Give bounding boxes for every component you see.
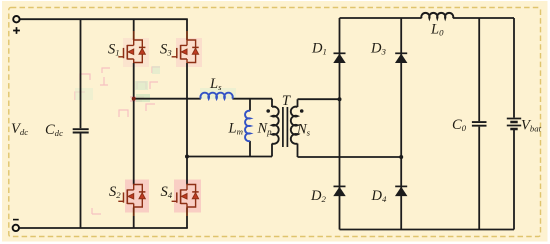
transistor S3 — [172, 39, 199, 63]
transformer core — [283, 107, 288, 147]
wire: top output rail right of L0 — [453, 17, 514, 19]
inductor Lm (blue) — [245, 111, 250, 141]
node: secondary top at D1 leg — [338, 97, 342, 101]
wire: Cdc branch — [80, 19, 82, 228]
plus sign — [13, 27, 20, 34]
diode D1 — [334, 53, 346, 62]
terminal + (positive input) — [13, 16, 19, 22]
battery Vbat plates — [507, 119, 521, 126]
transformer dot primary — [266, 109, 270, 113]
terminal - (negative input) — [13, 225, 19, 231]
transistor S2 — [118, 184, 145, 208]
transistor S1 — [118, 39, 145, 63]
inductor L0 — [421, 13, 453, 18]
wire: primary winding stubs — [271, 99, 273, 157]
wire: Ls to transformer top — [232, 98, 272, 100]
wire: D1/D2 leg — [339, 18, 341, 230]
pink highlight behind S3 — [176, 38, 202, 67]
wire: bottom left rail — [19, 227, 188, 229]
wire: battery branch — [513, 18, 515, 230]
pink highlight behind S1 — [123, 38, 149, 67]
node: bridge mid junction — [132, 97, 136, 101]
wire: S1/S2 leg — [133, 19, 135, 228]
pink highlight behind S2 — [125, 180, 149, 213]
wire: secondary bottom to D4 leg — [298, 156, 402, 158]
wire: S3/S4 leg — [186, 19, 188, 228]
wire: primary bottom — [187, 156, 272, 158]
jpeg artifact marks (faint) — [75, 67, 160, 214]
node: S3/S4 mid junction — [185, 155, 189, 159]
minus sign — [13, 219, 19, 221]
inductor Ls (blue) — [200, 93, 232, 99]
wire: secondary top to D1 leg — [298, 98, 340, 100]
diode D2 — [334, 186, 346, 195]
wire: Lm branch stubs — [249, 99, 251, 157]
diode D4 — [395, 186, 407, 195]
jpeg artifact green patches (faint) — [75, 66, 236, 102]
transformer secondary winding Ns — [291, 107, 298, 144]
wire: top output rail left of L0 — [340, 17, 422, 19]
wire: top left rail — [20, 18, 188, 20]
transformer primary winding Np — [272, 107, 279, 144]
wire: bridge mid to Ls — [134, 98, 201, 100]
node: secondary bottom at D4 leg — [399, 155, 403, 159]
transistor S4 — [172, 184, 199, 208]
svg-text:T: T — [282, 93, 291, 109]
pink highlight behind S4 — [174, 180, 201, 213]
capacitor Cdc — [73, 129, 89, 132]
wire: C0 branch — [478, 18, 480, 230]
wire: secondary winding stubs — [297, 99, 299, 157]
wire: bottom output rail — [340, 229, 515, 231]
capacitor C0 — [472, 122, 487, 126]
wire: D3/D4 leg — [400, 18, 402, 230]
diode D3 — [395, 53, 407, 62]
transformer dot secondary — [300, 109, 304, 113]
